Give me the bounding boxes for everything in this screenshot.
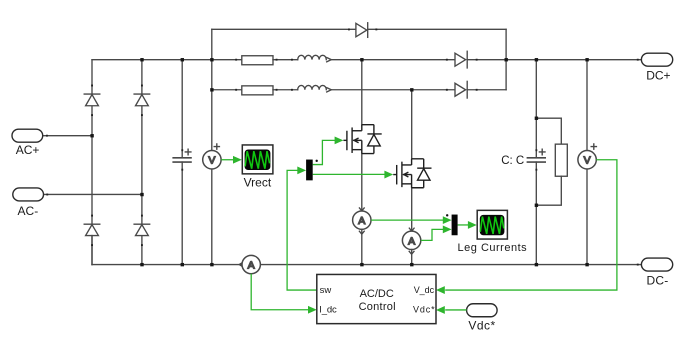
svg-text:DC+: DC+ [646, 69, 670, 83]
svg-text:Vdc*: Vdc* [413, 305, 435, 315]
wire V2 to V_dc [445, 160, 617, 290]
inductor L2 (leg 2) [298, 85, 327, 89]
wire R1 to L1 [273, 59, 298, 61]
wire AC+ lead [43, 135, 92, 137]
arrow L1 output [327, 58, 332, 62]
ammeter A1 (leg1 current) [353, 211, 371, 229]
diode D4 (bridge lower-right, pointing up) [134, 224, 150, 235]
svg-text:AC/DC: AC/DC [360, 288, 394, 300]
arrow L2 output [327, 88, 332, 92]
svg-text:DC-: DC- [647, 274, 669, 288]
wire bus corner left [91, 236, 93, 265]
wire right drop x=505.7 [505, 29, 507, 89]
plus sign V2 [591, 144, 596, 149]
voltmeter V2 (DC link) [578, 151, 596, 169]
diode D1 (bridge upper-left, pointing up) [84, 94, 100, 106]
port nubs on wires [46, 28, 639, 265]
wire V1 to Vrect scope [221, 159, 234, 161]
arrow into mux in2 [443, 225, 452, 233]
wire leg2 rail y=89.4 [212, 89, 242, 91]
wire mux to Leg Currents scope [458, 224, 469, 226]
wire demux out2 to Q2 gate [313, 173, 385, 175]
arrow below A1 [359, 231, 364, 234]
plus sign C2 [539, 149, 545, 155]
voltmeter V1 (Vrect) [203, 151, 221, 169]
wire Vdc* to control [445, 309, 466, 311]
svg-text:Control: Control [359, 301, 396, 313]
plus sign C1 [185, 149, 191, 155]
wire Vdc sensor branch x=586.6 [586, 60, 588, 265]
wire rectifier top bus y=59.3 [92, 59, 242, 61]
arrow into Q1 gate [335, 136, 344, 144]
MOSFET Q1 (upper switch) [343, 125, 381, 154]
diode D5 (top freewheel, pointing right) [356, 23, 368, 38]
arrow into Vrect scope [233, 156, 242, 164]
svg-text:V_dc: V_dc [414, 285, 435, 295]
capacitor C1 (filter cap) [173, 158, 191, 162]
resistor R1 (series R, leg 1) [242, 56, 273, 65]
svg-text:V: V [208, 155, 215, 167]
port Vdc* [467, 304, 498, 333]
port AC- [13, 188, 44, 218]
inductor L1 (leg 1) [298, 55, 327, 59]
bottom bus y=264.2 [92, 264, 641, 266]
wire top rail y=29 left segment [212, 28, 356, 30]
wire D6 to DC+ rail [467, 59, 641, 61]
wire R2 to L2 [273, 89, 298, 91]
arrow into Q2 gate [384, 171, 393, 179]
svg-text:AC+: AC+ [16, 143, 40, 157]
wire MOSFET leg1 x=361.4 [361, 60, 363, 211]
arrow into Vdc* port [436, 306, 445, 314]
plus sign V1 [214, 144, 219, 149]
port DC+ [641, 53, 672, 83]
wire A3 to I_dc [251, 274, 308, 310]
port DC- [641, 258, 672, 288]
svg-text:A: A [248, 260, 255, 272]
diode D7 (leg2 boost diode, pointing right) [455, 81, 467, 98]
wire bridge leg x=141.5 [141, 60, 143, 265]
green signal wires [221, 140, 617, 310]
subsystem AC/DC Control [317, 274, 436, 323]
demux (gate signals) [306, 160, 318, 181]
ammeter A2 (leg2 current) [402, 231, 420, 249]
diode D3 (bridge lower-left, pointing up) [84, 224, 100, 235]
wire L1 to D6 y=59.3 [331, 59, 455, 61]
arrow into I_dc port [308, 306, 317, 314]
arrow into V_dc port [436, 286, 445, 294]
scope Vrect [242, 145, 273, 190]
ammeter A3 (DC bus current I_dc) [242, 255, 260, 273]
svg-text:Leg Currents: Leg Currents [458, 242, 528, 254]
svg-text:C: C: C: C [501, 155, 524, 167]
arrow into ammeter A1 [359, 208, 364, 211]
svg-text:Vrect: Vrect [244, 176, 272, 190]
capacitor C2 branch wire x=535.9 [535, 60, 537, 265]
wire A2 to mux [421, 229, 443, 240]
wire Vrect sensor branch x=211.4 [211, 29, 213, 264]
svg-text:I_dc: I_dc [319, 305, 337, 316]
svg-text:sw: sw [320, 285, 332, 296]
scope Leg Currents [458, 210, 528, 254]
port AC+ [12, 129, 43, 157]
wire A1 to mux [371, 219, 443, 221]
wire MOSFET leg2 x=411.3 [411, 90, 413, 231]
wire L2 to D7 [331, 89, 455, 91]
arrow into demux [297, 166, 306, 174]
MOSFET Q2 (lower switch) [393, 159, 431, 188]
arrow into ammeter A3 [239, 262, 243, 267]
resistor R3 (load) [555, 144, 567, 176]
wire AC- lead [44, 193, 142, 195]
arrow into ammeter A2 [409, 228, 414, 231]
svg-text:AC-: AC- [18, 204, 39, 218]
wire A1 to bus [361, 229, 363, 264]
arrow into mux in1 [443, 216, 452, 224]
svg-text:A: A [358, 215, 365, 227]
arrow into Leg Currents scope [468, 221, 477, 229]
diode D6 (leg1 boost diode, pointing right) [455, 51, 467, 68]
green arrowheads [233, 136, 477, 313]
mux (leg currents) [446, 214, 458, 235]
arrow below A2 [409, 251, 414, 254]
wire bridge leg x=91.6 [91, 60, 93, 265]
diode D2 (bridge upper-right, pointing up) [134, 94, 150, 106]
capacitor C1 branch wire x=181.8 [181, 60, 183, 265]
wire A2 to bus [411, 250, 413, 265]
svg-text:V: V [584, 155, 591, 167]
wire load branch top [536, 118, 561, 144]
wire demux out1 to Q1 gate [313, 140, 336, 164]
svg-text:Vdc*: Vdc* [468, 318, 495, 332]
capacitor C2 (C: C) [527, 158, 545, 162]
wire top rail y=29 right segment [368, 28, 506, 30]
wire D7 to right drop [467, 89, 506, 91]
resistor R2 (series R, leg 2) [242, 86, 273, 95]
wire sw from control to demux [287, 170, 317, 290]
svg-text:A: A [408, 235, 415, 247]
wire load branch bottom [536, 176, 561, 205]
